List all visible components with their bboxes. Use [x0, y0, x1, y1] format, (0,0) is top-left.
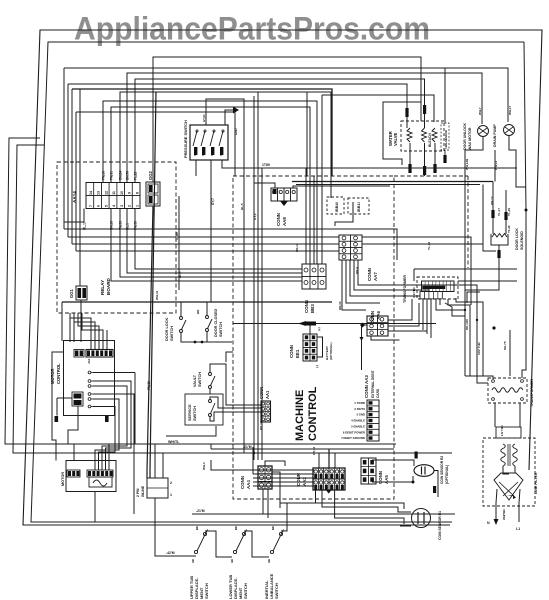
line filter connect: [503, 466, 509, 474]
svg-text:6 DEBIT POWER: 6 DEBIT POWER: [343, 430, 365, 434]
svg-text:RD,75: RD,75: [503, 341, 507, 350]
svg-text:YL,39: YL,39: [507, 225, 511, 233]
sensor wire down: [444, 150, 446, 162]
connector CONN BB3: [302, 264, 326, 289]
wire y68 to drain pump: [64, 68, 508, 122]
motor bottom wire: [94, 492, 96, 522]
machine control dashed box: [233, 176, 394, 499]
svg-text:RELAY: RELAY: [100, 280, 105, 295]
transformer connector top wires: [414, 268, 517, 270]
door lock switch wires: [180, 302, 182, 317]
svg-text:SWITCH: SWITCH: [219, 322, 223, 337]
wire x322 vertical: [321, 95, 323, 196]
2 pin inline wires: [154, 444, 156, 478]
upper tub displacement switch: [194, 550, 197, 553]
vault switch: [209, 373, 212, 376]
svg-text:DOOR UNLOCK: DOOR UNLOCK: [463, 122, 467, 150]
svg-text:14: 14: [89, 191, 93, 195]
wire x307 vertical: [306, 92, 308, 176]
svg-text:13: 13: [97, 191, 101, 195]
wire vault bottom: [226, 352, 233, 362]
wire y84 to water valve L: [68, 84, 407, 108]
svg-text:WH,41: WH,41: [155, 291, 159, 301]
water valve wire frame: [383, 102, 421, 165]
svg-text:BL,5: BL,5: [240, 203, 244, 210]
wire x495 down: [494, 150, 496, 182]
wire y112: [76, 111, 235, 113]
svg-text:(OPTIONAL): (OPTIONAL): [329, 343, 333, 361]
svg-text:TRANSFORMER: TRANSFORMER: [530, 379, 534, 407]
svg-text:CONTROL: CONTROL: [56, 363, 61, 384]
svg-text:PN,38: PN,38: [147, 381, 151, 390]
svg-text:DOOR LOCK: DOOR LOCK: [515, 228, 519, 250]
water valve feeds top: [406, 107, 408, 128]
svg-text:AA4: AA4: [246, 480, 251, 489]
svg-text:L1: L1: [516, 527, 520, 531]
door closed switch: [206, 316, 209, 319]
service switch box: [185, 394, 223, 425]
svg-text:CARD: CARD: [376, 388, 380, 398]
water valve dashed box: [401, 121, 444, 151]
wire y89 dark: [72, 89, 332, 176]
wire bullets below box: [55, 416, 59, 422]
wire y184: [296, 184, 480, 186]
wire y184b: [261, 168, 263, 196]
wire y95 to coil3: [322, 95, 434, 122]
transformer wires top: [465, 376, 493, 379]
wire coin bundle 1: [211, 460, 314, 470]
svg-text:7 DEBIT GROUND: 7 DEBIT GROUND: [341, 436, 365, 440]
svg-text:DRAIN PUMP: DRAIN PUMP: [493, 124, 497, 147]
wire y302 dark: [62, 301, 332, 303]
svg-text:CONTROL: CONTROL: [307, 386, 319, 441]
connector CONN AA2: [313, 468, 345, 490]
wire y92: [120, 92, 331, 198]
door closed switch wires: [206, 302, 208, 316]
motor control pins: [88, 371, 91, 374]
svg-text:GG2: GG2: [148, 170, 153, 180]
svg-text:12: 12: [104, 191, 108, 195]
svg-text:2: 2: [170, 481, 172, 485]
wire AA14 RL17: [64, 209, 84, 223]
motor control left block: [72, 392, 83, 406]
svg-text:GD: GD: [191, 559, 195, 563]
service switch: [209, 400, 212, 403]
wire y107: [111, 107, 310, 264]
outer border R1: [23, 30, 542, 525]
connector CONN AA8: [271, 188, 297, 201]
door lock solenoid wires: [492, 182, 494, 235]
svg-text:SWITCH: SWITCH: [204, 583, 209, 599]
transformer connector subrow: [420, 292, 442, 299]
svg-text:WH,17: WH,17: [508, 106, 512, 116]
svg-text:TRANSFORMER: TRANSFORMER: [403, 275, 407, 303]
vault switch wires: [210, 364, 261, 405]
svg-text:AA2: AA2: [302, 477, 307, 486]
bleach coil: [432, 128, 437, 142]
svg-text:-42′M: -42′M: [166, 551, 175, 555]
svg-text:BN,32: BN,32: [338, 301, 342, 310]
svg-text:SOLENOID: SOLENOID: [520, 231, 524, 250]
svg-text:1T89: 1T89: [175, 232, 179, 240]
dashed extension right: [394, 175, 468, 177]
svg-text:BK: BK: [195, 526, 199, 530]
svg-text:WAX MOTOR: WAX MOTOR: [468, 127, 472, 150]
svg-text:WH/TL: WH/TL: [168, 440, 180, 444]
svg-text:AppliancePartsPros.com: AppliancePartsPros.com: [74, 11, 430, 47]
svg-text:YL,17: YL,17: [497, 208, 501, 216]
wire top y57 GG2 bus to bleach: [153, 57, 421, 182]
svg-text:1 TX/RD: 1 TX/RD: [354, 401, 365, 405]
svg-text:IBB4I: IBB4I: [335, 202, 339, 212]
svg-text:BN,24: BN,24: [119, 171, 123, 180]
svg-text:PRESSURE SWITCH: PRESSURE SWITCH: [183, 120, 188, 158]
bus x262: [261, 168, 263, 460]
svg-text:BK: BK: [271, 526, 275, 530]
relay board dashed box: [57, 162, 176, 313]
coin sensor R2: [414, 465, 434, 477]
svg-text:GD: GD: [230, 559, 234, 563]
svg-text:LINE FILTER: LINE FILTER: [534, 472, 538, 494]
pressure switch box: [190, 125, 228, 160]
svg-text:N: N: [487, 521, 490, 525]
tub switch wires: [205, 531, 232, 557]
svg-text:CONN: CONN: [296, 473, 301, 486]
wires to coin sensor R1: [280, 502, 320, 504]
connector CONN EE1: [303, 334, 317, 361]
svg-text:CONN AA3: CONN AA3: [364, 375, 369, 398]
svg-text:BLEACH: BLEACH: [428, 133, 432, 147]
svg-text:4 ENABLE: 4 ENABLE: [351, 419, 365, 423]
water valve coil 2: [422, 128, 427, 142]
drain pump: [504, 125, 515, 136]
wire -21M bottom: [192, 513, 455, 515]
wire service loop bottom: [166, 426, 216, 436]
svg-text:GY,14: GY,14: [312, 446, 316, 455]
svg-text:SWITCH: SWITCH: [193, 406, 197, 421]
svg-text:MACHINE: MACHINE: [294, 390, 306, 441]
connector JA1: [86, 350, 113, 358]
water valve wires down: [409, 143, 411, 170]
border R2 right wire: [522, 42, 526, 378]
svg-text:BOARD: BOARD: [106, 277, 111, 295]
conn EE1 bracket: [317, 337, 323, 357]
wire y449: [211, 448, 394, 450]
motor connector A: [67, 470, 80, 477]
door lock solenoid tap down: [465, 245, 499, 290]
door unlock wax motor: [478, 126, 489, 137]
wire relay right T89: [178, 196, 180, 290]
svg-text:SWITCH: SWITCH: [243, 583, 248, 599]
pressure switch wire down2: [210, 160, 212, 302]
wire y64 vertical left: [63, 68, 65, 229]
svg-text:GD: GD: [267, 559, 271, 563]
svg-text:10: 10: [120, 191, 124, 195]
svg-text:7: 7: [89, 205, 93, 207]
svg-text:BK: BK: [234, 526, 238, 530]
wire coin bundle rows: [253, 473, 314, 475]
gnd arrow: [225, 110, 233, 125]
motor winding box: [89, 477, 112, 487]
svg-text:BL,6: BL,6: [178, 271, 182, 278]
svg-text:(+): (+): [317, 327, 321, 331]
wire y323 arrowed: [233, 323, 436, 325]
svg-text:CONN: CONN: [370, 311, 375, 324]
bus wire B x156: [150, 92, 156, 478]
svg-text:BN: BN: [196, 310, 200, 314]
bus wire A x153: [147, 206, 153, 478]
svg-text:IBB1I: IBB1I: [357, 202, 361, 212]
motor wires left loop: [52, 352, 64, 461]
conn AA8 wires: [254, 183, 275, 188]
transformer connector strip: [422, 281, 455, 292]
connector GG2: [146, 182, 160, 206]
svg-text:CONN: CONN: [240, 476, 245, 489]
connector CONN AA1: [261, 401, 271, 422]
transformer dashed box: [488, 378, 527, 403]
svg-text:WH,7: WH,7: [478, 107, 482, 115]
motor control left wires: [57, 397, 72, 399]
svg-text:AA6: AA6: [376, 310, 381, 319]
line filter bridge: [494, 473, 523, 500]
svg-text:1: 1: [170, 493, 172, 497]
junction dots: [464, 309, 466, 311]
svg-text:SERVICE: SERVICE: [188, 404, 192, 421]
svg-text:LIV THC: LIV THC: [500, 425, 504, 436]
motor body box: [66, 461, 116, 492]
thc box: [496, 427, 521, 438]
svg-text:DOOR CLOSED: DOOR CLOSED: [214, 308, 218, 337]
svg-text:EXTERNAL DEBIT: EXTERNAL DEBIT: [371, 370, 375, 398]
conn AA4 wires: [265, 461, 285, 466]
conn AA6 wires right: [388, 299, 412, 320]
coin sensor R2 wires: [372, 460, 414, 466]
svg-text:CONN: CONN: [276, 213, 281, 226]
transformer winding: [492, 388, 523, 393]
svg-text:COIN SENSOR R2: COIN SENSOR R2: [440, 456, 444, 484]
connector CONN AA6: [367, 316, 388, 336]
line filter bottom wires: [496, 489, 497, 519]
motor connector B: [87, 470, 113, 477]
svg-text:SWITCH: SWITCH: [198, 372, 202, 387]
door lock solenoid: [492, 234, 507, 238]
wire y101: [103, 101, 317, 264]
transformer connector stubs down: [422, 299, 424, 330]
svg-text:AA1: AA1: [265, 390, 270, 399]
lower tub displacement switch: [233, 550, 236, 553]
svg-text:8: 8: [135, 192, 139, 194]
svg-text:MOTOR: MOTOR: [61, 472, 65, 486]
svg-text:DOOR LOCK: DOOR LOCK: [165, 318, 169, 341]
conn EE1 wires: [309, 324, 311, 334]
transformer connector dashed box: [417, 277, 458, 299]
svg-text:AA5: AA5: [384, 475, 389, 484]
2 pin inline connector: [147, 478, 168, 498]
connector CONN AA4: [258, 466, 272, 489]
svg-text:PN,16: PN,16: [102, 171, 106, 180]
svg-text:C.9.THC: C.9.THC: [412, 287, 416, 298]
svg-text:4: 4: [112, 205, 116, 207]
wires relay board to JA1: [70, 313, 91, 350]
svg-text:6: 6: [97, 205, 101, 207]
border R2: [31, 42, 524, 522]
connector CONN AA5: [361, 458, 376, 484]
conn BB3 wires up: [305, 168, 307, 264]
svg-text:2 RX/TX: 2 RX/TX: [354, 407, 365, 411]
svg-text:VAULT: VAULT: [193, 374, 197, 387]
line filter dashed box: [483, 438, 535, 506]
wire y79 to water valve R: [135, 79, 425, 183]
svg-text:WH,3: WH,3: [202, 462, 206, 470]
connector CONN AA7: [339, 235, 362, 260]
svg-text:AA8: AA8: [282, 217, 287, 226]
svg-text:2 PIN: 2 PIN: [136, 488, 140, 497]
wire 1T89 long: [244, 167, 517, 169]
coin sensor R1 left wire: [400, 525, 411, 527]
svg-text:5 ENABLE: 5 ENABLE: [351, 424, 365, 428]
pressure switch top wire to bus x244: [206, 99, 244, 453]
svg-text:WH,13: WH,13: [494, 161, 498, 171]
pressure switch wire down: [222, 160, 262, 168]
svg-text:GG1: GG1: [69, 288, 74, 298]
pressure switch wire down3: [195, 160, 197, 176]
water valve coil 1: [407, 128, 412, 142]
svg-text:GY,21: GY,21: [202, 114, 206, 122]
svg-text:VALVE: VALVE: [393, 132, 398, 146]
svg-text:-21′M: -21′M: [196, 509, 205, 513]
svg-text:(-): (-): [315, 365, 319, 368]
wire right x430 from tp2: [445, 303, 465, 316]
drain pump wires: [509, 136, 526, 187]
line filter coils: [501, 444, 506, 466]
svg-text:WH/THC: WH/THC: [502, 509, 506, 520]
transformer wires bottom to line filter: [494, 403, 496, 427]
svg-text:GY,7: GY,7: [211, 198, 215, 205]
svg-text:BB3: BB3: [310, 304, 315, 313]
svg-text:5: 5: [104, 205, 108, 207]
door unlock wires: [465, 137, 483, 376]
svg-text:CONN: CONN: [367, 268, 372, 281]
wire right x456: [456, 298, 483, 376]
wire x477: [476, 320, 478, 378]
wires AA14 down to conn BB3: [111, 209, 302, 282]
svg-text:EE1: EE1: [295, 349, 300, 358]
junction node: [253, 452, 255, 454]
svg-text:2: 2: [128, 205, 132, 207]
svg-text:3: 3: [120, 205, 124, 207]
connector JA2 small: [74, 350, 84, 358]
motor control box: [64, 341, 115, 416]
svg-text:BN,12: BN,12: [295, 243, 299, 252]
svg-text:1RV THC: 1RV THC: [477, 341, 481, 355]
conn AA2 wires up: [328, 449, 330, 468]
svg-text:SWITCH: SWITCH: [170, 326, 174, 341]
coin sensor R1: [412, 509, 431, 528]
wire y73 to door unlock: [127, 73, 482, 183]
conn AA6 left wire: [362, 325, 368, 370]
svg-text:11: 11: [112, 191, 116, 195]
bus x258: [257, 92, 259, 460]
tp2 bracket: [467, 292, 480, 303]
wire y181 dark: [292, 181, 493, 183]
conn AA7 left wires: [64, 229, 397, 260]
conn AA7 right wires: [362, 237, 471, 305]
connector AA14: [86, 183, 140, 209]
connector CONN AA3 strip: [367, 400, 379, 441]
svg-text:1T89: 1T89: [262, 163, 270, 167]
sensor column dashed: [441, 123, 449, 150]
svg-text:AA7: AA7: [373, 272, 378, 281]
svg-text:INLINE: INLINE: [141, 485, 145, 497]
wire left bypass inner: [13, 145, 452, 453]
motor control pin stubs: [93, 372, 135, 374]
wire BB1 hook: [335, 202, 353, 226]
wire left bypass outer: [5, 138, 396, 444]
svg-text:1: 1: [135, 205, 139, 207]
svg-text:FL,22: FL,22: [134, 171, 138, 180]
connector BB1I dashed: [348, 198, 369, 214]
svg-text:YL,13: YL,13: [427, 242, 431, 250]
svg-text:CHN-SENSOR: CHN-SENSOR: [444, 130, 448, 149]
bus x254: [253, 96, 255, 460]
conn AA6 bottom wire: [371, 336, 400, 340]
svg-text:AA14: AA14: [72, 191, 77, 203]
svg-text:BN,4: BN,4: [355, 267, 359, 274]
door lock switch: [180, 317, 183, 320]
svg-text:9: 9: [128, 192, 132, 194]
svg-text:SWITCH: SWITCH: [274, 583, 279, 599]
connector GG1: [76, 286, 87, 300]
svg-text:RD,13N: RD,13N: [465, 319, 469, 330]
bus x235: [234, 112, 236, 176]
svg-text:BN,70: BN,70: [126, 171, 130, 180]
svg-text:PN,31: PN,31: [110, 171, 114, 180]
svg-text:(OPTIONAL): (OPTIONAL): [445, 465, 449, 484]
svg-text:JA1: JA1: [87, 358, 91, 364]
left verticals to motor control: [69, 313, 71, 342]
svg-text:3 GND: 3 GND: [356, 413, 365, 417]
svg-text:CONN: CONN: [289, 345, 294, 358]
connector BB4I dashed: [327, 197, 344, 214]
conn AA7 bottom wires: [342, 260, 366, 310]
inertial unbalance switch: [270, 550, 273, 553]
service switch wires: [210, 397, 261, 408]
svg-text:COIN SENSOR R1: COIN SENSOR R1: [438, 511, 442, 540]
door lock solenoid left loop: [483, 185, 496, 252]
wire chn sensor feed: [444, 68, 446, 123]
wire GG1 down: [80, 300, 82, 342]
